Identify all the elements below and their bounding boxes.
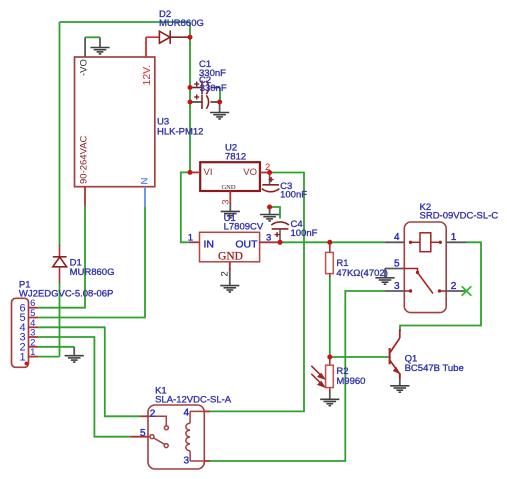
- svg-text:3: 3: [184, 456, 190, 467]
- svg-text:5: 5: [140, 428, 146, 439]
- svg-text:M9960: M9960: [336, 376, 365, 387]
- svg-text:HLK-PM12: HLK-PM12: [157, 127, 203, 138]
- svg-text:SLA-12VDC-SL-A: SLA-12VDC-SL-A: [155, 395, 232, 406]
- svg-text:MUR860G: MUR860G: [159, 18, 204, 29]
- svg-text:BC547B Tube: BC547B Tube: [405, 363, 464, 374]
- svg-text:-VO: -VO: [79, 59, 90, 76]
- svg-text:3: 3: [266, 233, 271, 244]
- svg-text:GND: GND: [218, 250, 243, 262]
- svg-text:L7809CV: L7809CV: [224, 222, 264, 233]
- svg-text:GND: GND: [221, 184, 235, 191]
- svg-text:1: 1: [188, 233, 193, 244]
- svg-text:2: 2: [219, 271, 230, 276]
- svg-text:1: 1: [20, 351, 26, 363]
- svg-text:12V.: 12V.: [141, 65, 153, 86]
- svg-text:90-264VAC: 90-264VAC: [79, 135, 90, 184]
- svg-text:2: 2: [150, 409, 156, 420]
- svg-text:7812: 7812: [225, 151, 246, 162]
- svg-text:OUT: OUT: [235, 239, 258, 251]
- svg-text:4: 4: [184, 407, 190, 418]
- svg-text:47KΩ(4702): 47KΩ(4702): [336, 268, 387, 279]
- svg-text:100nF: 100nF: [280, 190, 307, 201]
- svg-text:N: N: [140, 178, 151, 185]
- svg-text:100nF: 100nF: [291, 228, 318, 239]
- svg-text:WJ2EDGVC-5.08-06P: WJ2EDGVC-5.08-06P: [19, 289, 114, 300]
- svg-text:VI: VI: [204, 167, 213, 178]
- svg-text:3: 3: [394, 281, 400, 292]
- svg-text:4: 4: [394, 232, 400, 243]
- svg-text:SRD-09VDC-SL-C: SRD-09VDC-SL-C: [420, 211, 499, 222]
- svg-text:1: 1: [30, 347, 35, 358]
- svg-text:3: 3: [221, 199, 232, 204]
- svg-text:2: 2: [451, 281, 457, 292]
- svg-text:330nF: 330nF: [200, 83, 227, 94]
- svg-text:VO: VO: [243, 167, 257, 178]
- svg-text:1: 1: [451, 232, 457, 243]
- svg-text:5: 5: [394, 259, 400, 270]
- svg-text:MUR860G: MUR860G: [70, 267, 115, 278]
- svg-text:IN: IN: [204, 239, 215, 251]
